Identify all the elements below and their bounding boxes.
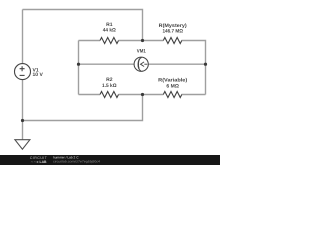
svg-text:44 kΩ: 44 kΩ [103,28,116,34]
node junction at R2/R(Variable)/bottom drop [141,93,144,96]
wire row1 mid (R1 to R(Mystery)) [119,40,164,42]
wire bottom (node B to left rail) [23,95,143,121]
node junction at right rail/VM1 [204,63,207,66]
svg-text:10 V: 10 V [33,72,44,78]
wire row2 right (VM1 to right rail) [148,63,205,65]
resistor R1 [100,38,119,44]
wire row3 mid (R2 to R(Variable)) [119,94,164,96]
resistor R(Variable) [163,92,182,98]
svg-text:∼∼►LAB: ∼∼►LAB [30,160,47,164]
wire left rail lower (V1 bottom lead to ground) [22,80,24,140]
voltmeter VM1 needle arrow [141,62,148,67]
wire middle-left rail [78,41,80,95]
resistor R2 [100,92,119,98]
wire row1 left (rail to R1) [79,40,101,42]
node junction at bottom wire/V1/ground [21,119,24,122]
svg-text:146.7 MΩ: 146.7 MΩ [162,29,183,35]
node junction at R1/R(Mystery)/top wire [141,39,144,42]
wire row2 left (rail to VM1) [79,63,135,65]
voltmeter VM1 [134,57,148,71]
wire left rail upper (V1 top lead) [22,10,24,64]
wire row3 right (R(Variable) to right rail) [182,94,206,96]
ground [15,140,30,150]
svg-text:1.5 kΩ: 1.5 kΩ [102,83,117,89]
voltage source V1 [15,64,31,80]
node junction at rail2/VM1 [77,63,80,66]
wire top (V1 top to node A drop) [23,10,143,41]
resistor R(Mystery) [163,38,182,44]
svg-text:6 MΩ: 6 MΩ [166,83,179,89]
svg-text:circuitlab.com/c/7e7eg6bj90c4: circuitlab.com/c/7e7eg6bj90c4 [53,160,100,164]
watermark bar [0,155,220,165]
svg-text:VM1: VM1 [137,49,146,55]
wire row3 left (rail to R2) [79,94,101,96]
wire row1 right + right rail [182,41,206,95]
